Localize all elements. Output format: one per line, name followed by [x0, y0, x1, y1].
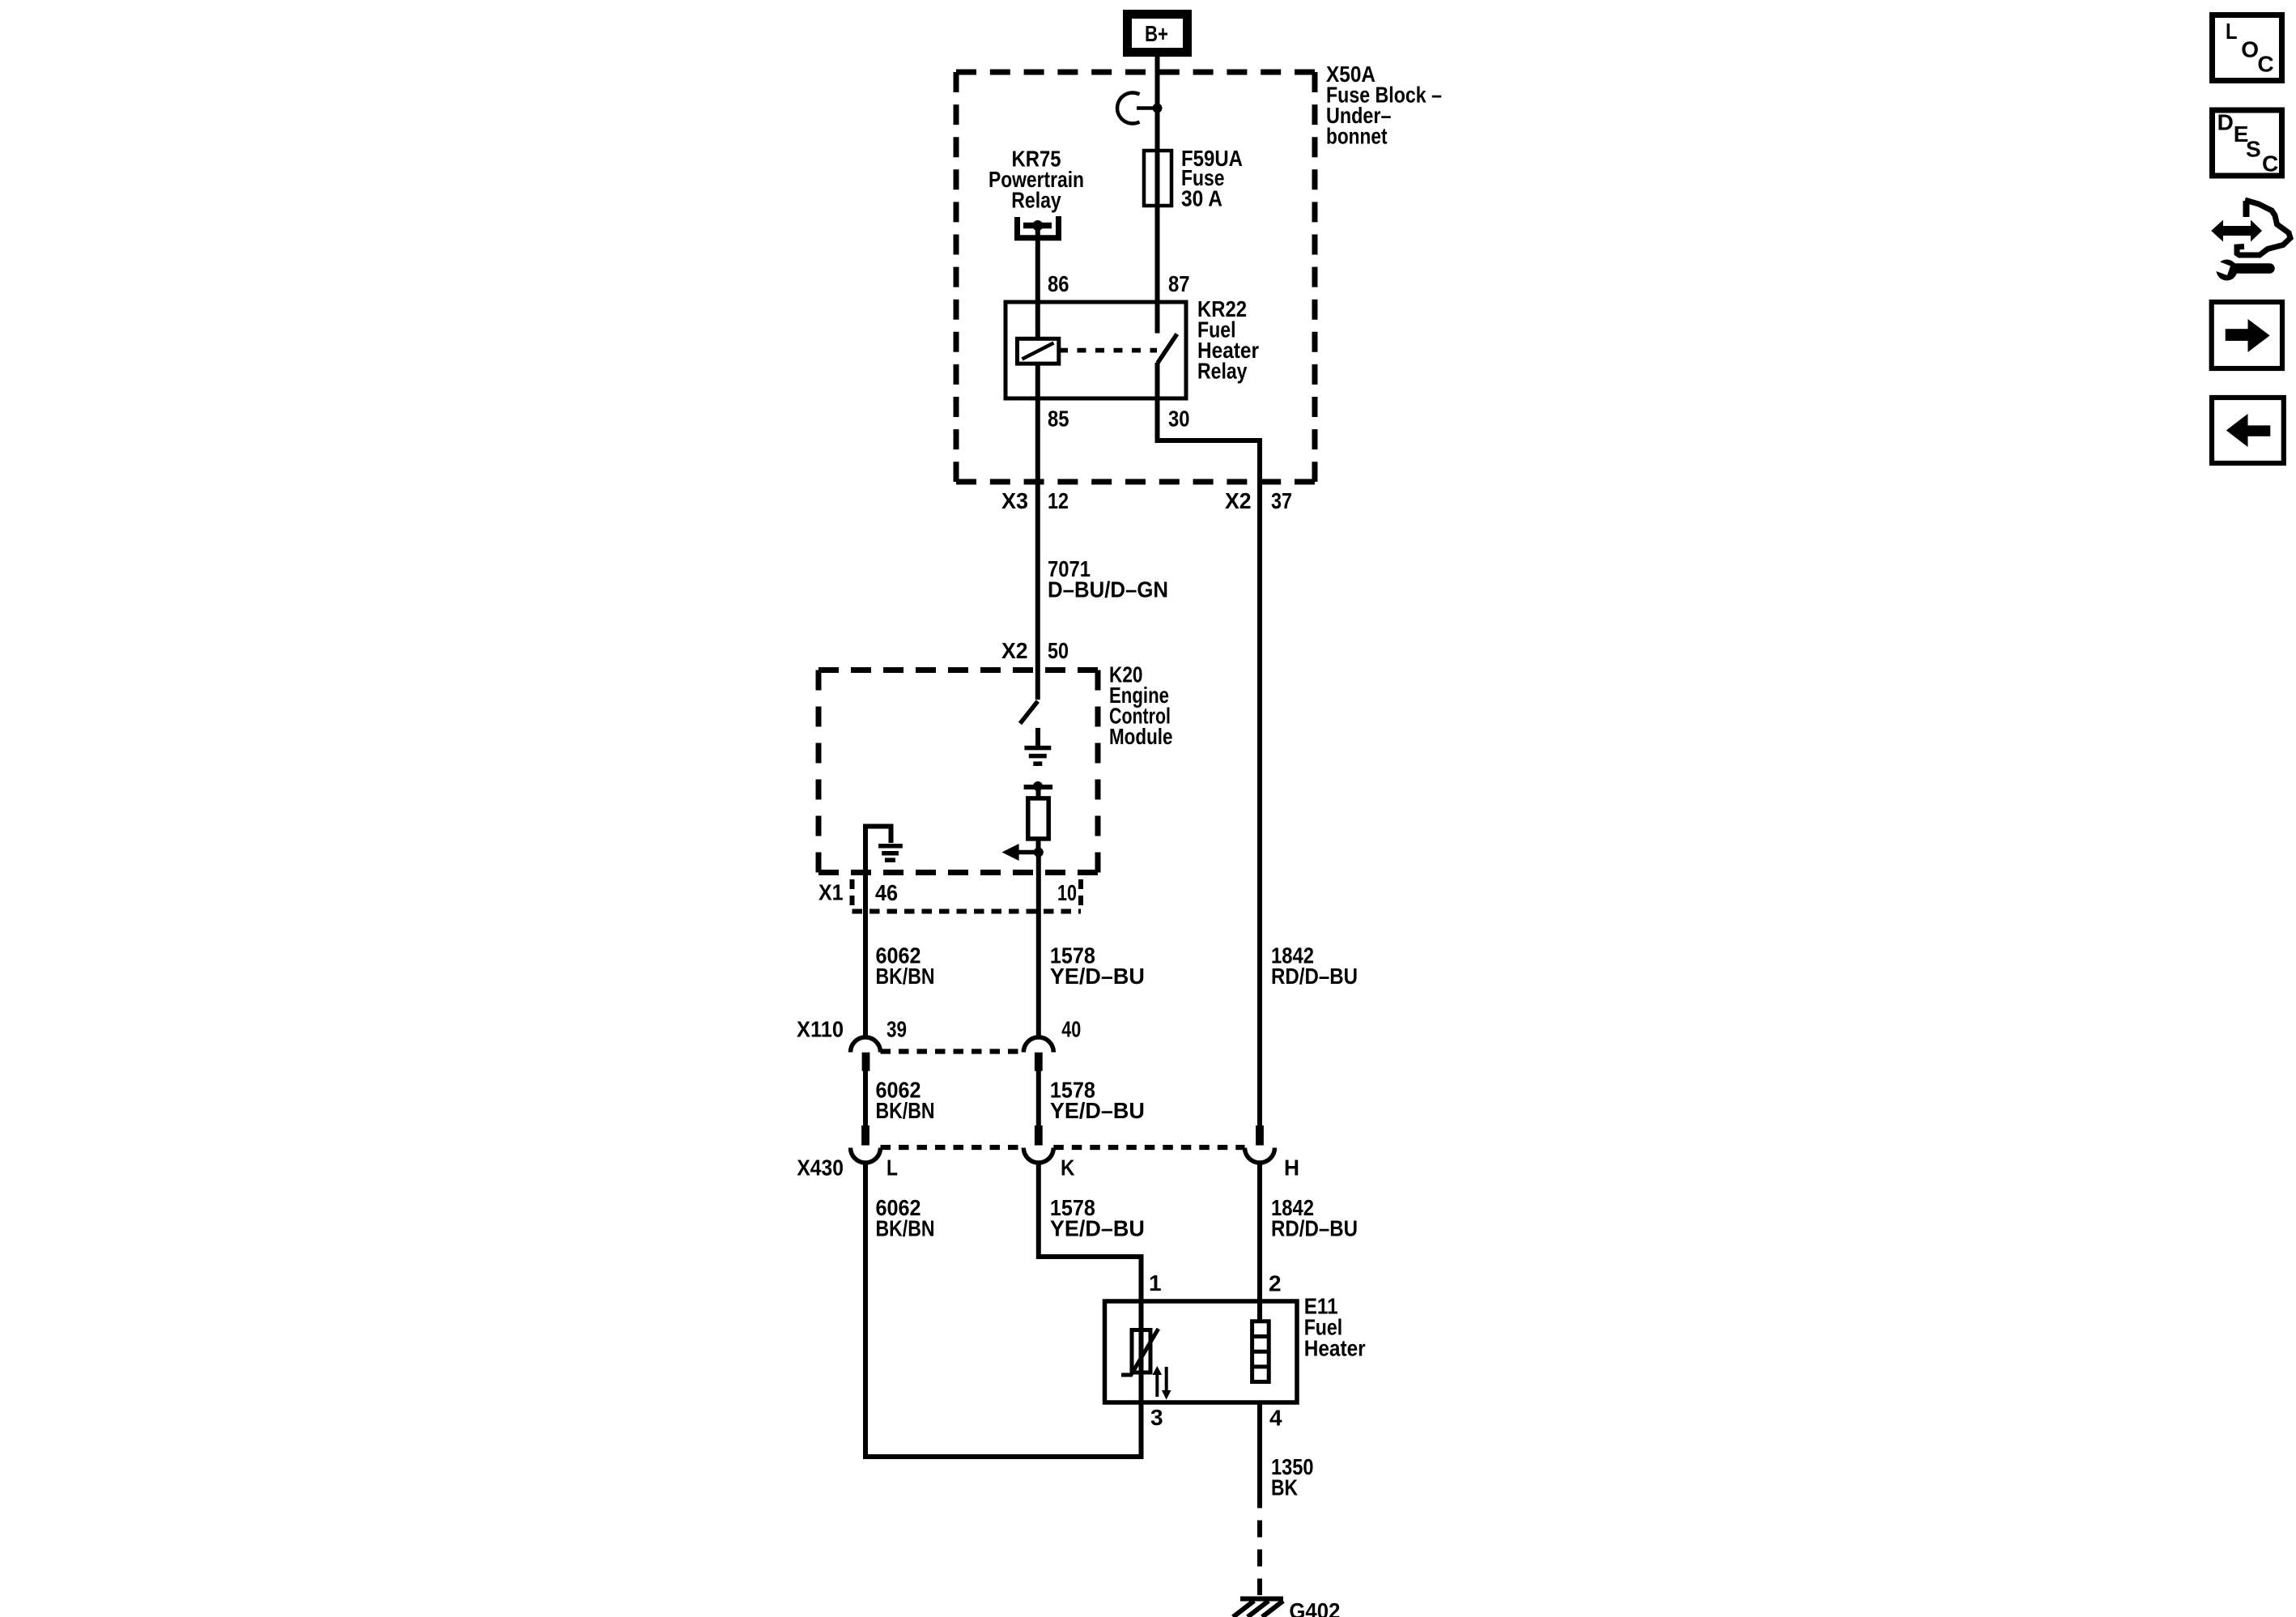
- pin label 87: [1168, 271, 1190, 296]
- connector X110 dashed line: [881, 1049, 1024, 1053]
- label G402: [1289, 1598, 1340, 1617]
- wire KR75 to relay coil pin 86: [1035, 226, 1040, 303]
- svg-text:Relay: Relay: [1197, 359, 1248, 384]
- svg-text:1: 1: [1149, 1270, 1162, 1296]
- icon forward arrow box: [2212, 302, 2282, 368]
- connector X110 pin 40: [1023, 1037, 1053, 1071]
- svg-text:X2: X2: [1001, 638, 1028, 663]
- svg-text:10: 10: [1057, 880, 1077, 905]
- wire relay pin 85 to ECM switch: [1035, 364, 1040, 700]
- svg-text:RD/D–BU: RD/D–BU: [1271, 964, 1358, 989]
- svg-text:YE/D–BU: YE/D–BU: [1050, 964, 1145, 989]
- svg-text:12: 12: [1048, 488, 1069, 513]
- label X50A Fuse Block Underbonnet: [1326, 62, 1442, 149]
- wire X430 L to fuel heater pin 3: [865, 1163, 1142, 1457]
- ECM internal driver resistor: [1024, 781, 1053, 853]
- ECM internal ground hook on pin 46: [865, 827, 903, 1038]
- svg-text:30 A: 30 A: [1181, 186, 1222, 211]
- svg-text:C: C: [2257, 52, 2273, 77]
- pin label 2: [1269, 1271, 1282, 1296]
- relay KR22 box: [1006, 302, 1186, 398]
- wire relay pin 30 to fuse block pin 37: [1158, 363, 1261, 1145]
- svg-text:2: 2: [1269, 1271, 1282, 1296]
- svg-text:Module: Module: [1109, 724, 1173, 749]
- ECM driver output arrow: [1001, 844, 1043, 861]
- wire label 1350 BK: [1271, 1454, 1314, 1500]
- icon LOC box: [2213, 15, 2282, 81]
- svg-text:BK: BK: [1271, 1475, 1298, 1500]
- svg-text:O: O: [2241, 37, 2259, 62]
- svg-text:46: 46: [875, 880, 898, 905]
- label KR75 Powertrain Relay: [989, 147, 1084, 213]
- svg-text:bonnet: bonnet: [1326, 124, 1388, 149]
- icon DESC box: [2213, 110, 2282, 177]
- label F59UA Fuse 30 A: [1181, 146, 1243, 211]
- svg-text:85: 85: [1048, 406, 1069, 432]
- ECM internal switch: [1020, 701, 1038, 724]
- wire label 1842 RD/D-BU lower: [1271, 1195, 1358, 1241]
- svg-text:X1: X1: [818, 880, 844, 905]
- ECM K20 dashed box: [818, 670, 1098, 873]
- svg-text:C: C: [2262, 151, 2278, 177]
- dashed wire to ground G402: [1257, 1521, 1262, 1596]
- KR75 powertrain relay terminal symbol: [1014, 216, 1061, 238]
- svg-text:D–BU/D–GN: D–BU/D–GN: [1048, 577, 1168, 602]
- wire label 1578 YE/D-BU lower: [1050, 1195, 1145, 1241]
- connector X110 pin 39: [851, 1037, 881, 1071]
- svg-text:K: K: [1061, 1155, 1075, 1181]
- wire label 1842 RD/D-BU upper: [1271, 943, 1358, 989]
- svg-text:86: 86: [1048, 271, 1069, 296]
- clip connector on B+ feed: [1117, 92, 1162, 123]
- svg-text:YE/D–BU: YE/D–BU: [1050, 1098, 1145, 1123]
- pin label 85: [1048, 406, 1069, 432]
- ECM internal ground symbol: [1024, 728, 1051, 764]
- svg-text:X110: X110: [797, 1016, 844, 1041]
- wire X110 40 to X430 K: [1036, 1071, 1041, 1126]
- icon back arrow box: [2212, 398, 2284, 463]
- fuse F59UA: [1144, 151, 1171, 206]
- svg-text:L: L: [887, 1155, 898, 1181]
- pin label 1: [1149, 1270, 1162, 1296]
- connector label X1 46 10: [818, 880, 1077, 906]
- svg-text:50: 50: [1048, 638, 1069, 663]
- connector X430 pin L: [851, 1126, 881, 1163]
- connector label X2 50: [1001, 638, 1069, 663]
- connector label X2 37: [1225, 488, 1292, 513]
- svg-text:BK/BN: BK/BN: [876, 1098, 935, 1123]
- svg-text:Relay: Relay: [1011, 188, 1061, 213]
- svg-text:87: 87: [1168, 271, 1190, 296]
- svg-text:37: 37: [1271, 488, 1292, 513]
- icon adjust-repair (hand with wrench): [2208, 200, 2290, 281]
- connector X430 pin H: [1245, 1126, 1275, 1163]
- svg-text:4: 4: [1269, 1406, 1282, 1431]
- svg-text:39: 39: [887, 1016, 907, 1041]
- label E11 Fuel Heater: [1304, 1294, 1366, 1361]
- connector label X3 12: [1001, 488, 1069, 513]
- wire ECM pin 10 to connector X110 pin 40: [1036, 853, 1041, 1038]
- svg-text:H: H: [1284, 1155, 1299, 1181]
- svg-text:RD/D–BU: RD/D–BU: [1271, 1216, 1358, 1241]
- wire X430 K to fuel heater pin 1: [1039, 1163, 1142, 1301]
- svg-text:X2: X2: [1225, 488, 1252, 513]
- pin label 4: [1269, 1406, 1282, 1431]
- svg-text:40: 40: [1061, 1016, 1081, 1041]
- connector label X110 39 40: [797, 1016, 1081, 1041]
- svg-text:30: 30: [1168, 406, 1190, 432]
- svg-text:YE/D–BU: YE/D–BU: [1050, 1216, 1145, 1241]
- wire label 7071 D-BU/D-GN: [1048, 556, 1168, 602]
- battery feed B+: [1128, 15, 1188, 53]
- wire X110 39 to X430 L: [863, 1071, 868, 1126]
- connector label X430 L K H: [797, 1155, 1299, 1181]
- svg-text:L: L: [2226, 19, 2238, 44]
- wire label 6062 BK/BN middle: [876, 1078, 935, 1124]
- relay KR22 coil: [1018, 302, 1059, 364]
- svg-text:D: D: [2217, 110, 2234, 135]
- label K20 Engine Control Module: [1109, 662, 1173, 750]
- svg-text:BK/BN: BK/BN: [876, 1216, 935, 1241]
- E11 temperature arrows: [1153, 1366, 1171, 1400]
- wire B+ to fuse F59UA: [1155, 57, 1160, 151]
- connector X430 pin K: [1023, 1126, 1053, 1163]
- wire label 6062 BK/BN lower: [876, 1195, 935, 1241]
- svg-text:X430: X430: [797, 1155, 844, 1181]
- wire fuse to relay pin 87: [1155, 206, 1160, 334]
- svg-text:S: S: [2246, 137, 2261, 162]
- wire label 1578 YE/D-BU upper: [1050, 943, 1145, 989]
- svg-text:G402: G402: [1289, 1598, 1340, 1617]
- svg-text:B+: B+: [1145, 21, 1168, 46]
- wire label 6062 BK/BN upper: [876, 943, 935, 989]
- wire fuel heater pin 4: [1257, 1402, 1262, 1508]
- label KR22 Fuel Heater Relay: [1197, 296, 1259, 384]
- connector X1 boundary: [852, 879, 1082, 912]
- pin label 3: [1150, 1405, 1163, 1430]
- relay KR22 switch contact: [1158, 334, 1177, 399]
- svg-text:BK/BN: BK/BN: [876, 964, 935, 989]
- pin label 86: [1048, 271, 1069, 296]
- svg-text:Heater: Heater: [1304, 1336, 1366, 1361]
- fuel heater E11 box: [1105, 1301, 1298, 1402]
- wire X430 H to fuel heater pin 2: [1257, 1163, 1262, 1321]
- relay KR22 coil-contact dashed link: [1059, 348, 1157, 353]
- connector X430 dashed line: [881, 1145, 1245, 1150]
- ground G402 symbol: [1233, 1599, 1283, 1617]
- fuse block X50A dashed box: [956, 72, 1315, 482]
- svg-text:3: 3: [1150, 1405, 1163, 1430]
- wire label 1578 YE/D-BU middle: [1050, 1078, 1145, 1124]
- pin label 30: [1168, 406, 1190, 432]
- svg-text:X3: X3: [1001, 488, 1028, 513]
- E11 thermistor: [1121, 1301, 1159, 1402]
- E11 heater element: [1252, 1321, 1269, 1382]
